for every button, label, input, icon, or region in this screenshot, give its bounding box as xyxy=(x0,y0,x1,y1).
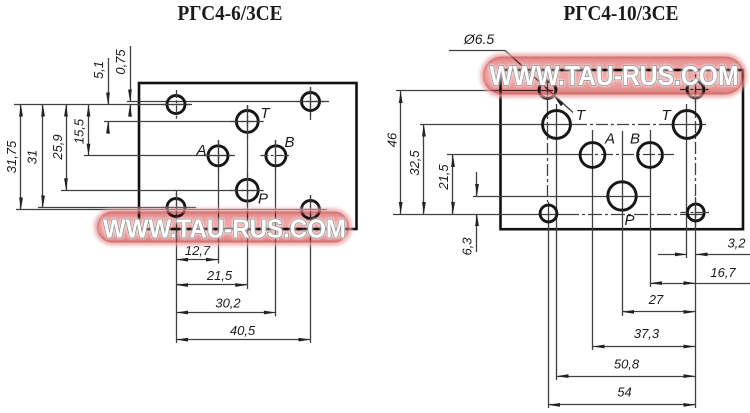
drill hole top-left Ø6.5 (right drawing) xyxy=(539,82,556,99)
svg-text:РГС4-10/3СЕ: РГС4-10/3СЕ xyxy=(564,1,679,25)
svg-text:54: 54 xyxy=(617,385,631,400)
extension line left bolt column x=176 xyxy=(176,190,178,343)
port hole T-right (right drawing) xyxy=(673,111,701,139)
svg-text:37,3: 37,3 xyxy=(634,326,660,341)
extension line port B column x=275.9 xyxy=(275,140,277,317)
dimension 40,5 (left drawing) xyxy=(176,339,311,341)
plate outline right xyxy=(501,70,744,229)
dimension 30,2 (left drawing) xyxy=(176,312,276,314)
svg-text:6,3: 6,3 xyxy=(460,237,475,256)
dimension 37,3 (right drawing) xyxy=(593,346,696,348)
dimension 5,1 (left drawing) xyxy=(108,58,110,105)
svg-text:A: A xyxy=(604,131,615,148)
svg-text:Ø6.5: Ø6.5 xyxy=(463,31,495,47)
extension line port A column x=218 xyxy=(218,140,220,264)
svg-text:5,1: 5,1 xyxy=(91,61,106,79)
svg-text:31,75: 31,75 xyxy=(4,140,19,173)
port hole P (left drawing) xyxy=(236,179,258,201)
port hole A (left drawing) xyxy=(208,146,228,166)
port hole T-left (right drawing) xyxy=(543,111,571,139)
extension line right hole column lower x=695.5 (right drawing) xyxy=(695,200,697,408)
dimension 0,75 (left drawing) xyxy=(130,46,132,102)
svg-text:46: 46 xyxy=(385,132,400,147)
port hole B (right drawing) xyxy=(638,143,663,168)
extension line bottom-right bolt y=209.5 xyxy=(16,209,327,211)
extension line port T-left column x=556.5 (right drawing) xyxy=(556,104,558,380)
centerline left hole column x=547.5 (right drawing) xyxy=(547,79,549,101)
dimension 21,5 (left drawing) xyxy=(176,284,247,286)
svg-text:P: P xyxy=(624,212,634,229)
dimension 31,75 (left drawing) xyxy=(20,105,22,210)
watermark pill right xyxy=(482,56,745,96)
dimension 25,9 (left drawing) xyxy=(66,105,68,191)
extension line top-right bolt centerline x=310.5 xyxy=(310,87,312,120)
watermark text right xyxy=(490,60,739,91)
svg-text:3,2: 3,2 xyxy=(727,236,746,251)
svg-text:16,7: 16,7 xyxy=(710,265,736,280)
extension line P row y=196 (right drawing) xyxy=(473,196,650,198)
dimension 12,7 (left drawing) xyxy=(176,259,218,261)
bolt hole bottom-left (left drawing) xyxy=(167,199,185,217)
extension line port A column x=592.5 (right drawing) xyxy=(592,130,594,350)
extension line T row y=124.5 (right drawing) xyxy=(420,124,575,126)
extension line port P y=190.2 xyxy=(61,190,263,192)
plate outline left xyxy=(139,83,357,229)
svg-text:21,5: 21,5 xyxy=(206,268,233,283)
port hole B (left drawing) xyxy=(266,146,286,166)
svg-text:40,5: 40,5 xyxy=(230,323,256,338)
dimension 32,5 (right drawing) xyxy=(423,125,425,215)
watermark pill left xyxy=(96,211,350,244)
svg-text:25,9: 25,9 xyxy=(50,134,65,160)
svg-text:WWW.TAU-RUS.COM: WWW.TAU-RUS.COM xyxy=(490,60,739,91)
svg-text:P: P xyxy=(258,191,268,208)
svg-text:27: 27 xyxy=(648,292,664,307)
port hole A (right drawing) xyxy=(580,143,605,168)
extension line port A y=155.8 xyxy=(84,155,235,157)
centerline right hole column x=695.5 (right drawing) xyxy=(695,78,697,100)
bolt hole top-right (left drawing) xyxy=(302,93,320,111)
svg-text:32,5: 32,5 xyxy=(407,150,422,176)
svg-text:A: A xyxy=(195,142,206,159)
drill hole bottom-left (right drawing) xyxy=(540,205,557,222)
svg-text:31: 31 xyxy=(25,150,40,164)
dimension 15,5 (left drawing) xyxy=(88,105,90,156)
extension line port T y=121.4 xyxy=(104,121,263,123)
extension line port B column x=650 (right drawing) xyxy=(650,130,652,287)
extension line top hole row y=91 (right drawing) xyxy=(396,90,553,92)
dimension 54 (right drawing) xyxy=(548,404,696,406)
centerline bottom row dash-dot (right drawing) xyxy=(565,214,683,216)
svg-text:B: B xyxy=(630,131,640,148)
centerline T row dash-dot (right drawing) xyxy=(575,124,668,126)
svg-text:WWW.TAU-RUS.COM: WWW.TAU-RUS.COM xyxy=(103,214,346,244)
extension line port P column x=622 (right drawing) xyxy=(622,131,624,316)
dimension 31 (left drawing) xyxy=(42,105,44,208)
svg-text:РГС4-6/3СЕ: РГС4-6/3СЕ xyxy=(178,1,283,25)
extension line bottom hole row y=214 (right drawing) xyxy=(393,214,565,216)
svg-text:15,5: 15,5 xyxy=(72,118,87,144)
dimension 16,7 (right drawing) xyxy=(650,283,750,285)
extension line top-left bolt row y=104.5 xyxy=(14,104,192,106)
extension line left hole column lower x=548 (right drawing) xyxy=(548,202,550,408)
svg-text:B: B xyxy=(284,134,294,151)
extension line top-right bolt row y=101.5 xyxy=(127,101,329,103)
leader Ø6.5 (right drawing) xyxy=(449,50,505,52)
dimension 6,3 (right drawing) xyxy=(476,172,478,196)
svg-text:30,2: 30,2 xyxy=(215,296,241,311)
extension line port T-right column x=687 (right drawing) xyxy=(686,104,688,258)
extension line A/B row y=155 (right drawing) xyxy=(447,154,580,156)
extension line ports T/P column x=247.3 xyxy=(247,106,249,289)
port hole P (right drawing) xyxy=(608,182,636,210)
extension line bottom-left bolt y=207.5 xyxy=(38,207,196,209)
dimension 27 (right drawing) xyxy=(622,311,696,313)
dimension 46 (right drawing) xyxy=(400,91,402,214)
drill hole bottom-right (right drawing) xyxy=(687,204,704,221)
bolt hole bottom-right (left drawing) xyxy=(302,201,320,219)
dimension 50,8 (right drawing) xyxy=(557,376,696,378)
watermark text left xyxy=(103,214,346,244)
svg-text:50,8: 50,8 xyxy=(614,357,640,372)
drill hole top-right (right drawing) xyxy=(687,81,704,98)
port hole T (left drawing) xyxy=(236,111,258,133)
extension line right bolt column x=310.5 xyxy=(310,195,312,343)
bolt hole top-left (left drawing) xyxy=(167,96,185,114)
centerline A-B dash-dot (right drawing) xyxy=(580,154,674,156)
dimension 3,2 (right drawing) xyxy=(658,254,687,256)
svg-text:0,75: 0,75 xyxy=(113,49,128,75)
dimension 21,5 (right drawing) xyxy=(452,155,454,214)
svg-text:21,5: 21,5 xyxy=(436,164,451,191)
